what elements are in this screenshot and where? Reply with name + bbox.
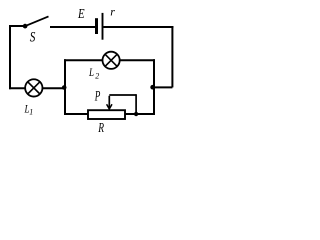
svg-text:R: R xyxy=(98,121,105,136)
svg-text:1: 1 xyxy=(29,108,33,117)
svg-text:L: L xyxy=(88,65,94,79)
svg-text:S: S xyxy=(30,29,36,45)
svg-text:2: 2 xyxy=(95,72,99,81)
svg-text:E: E xyxy=(77,7,85,22)
svg-text:P: P xyxy=(94,89,100,105)
svg-text:r: r xyxy=(110,5,115,19)
